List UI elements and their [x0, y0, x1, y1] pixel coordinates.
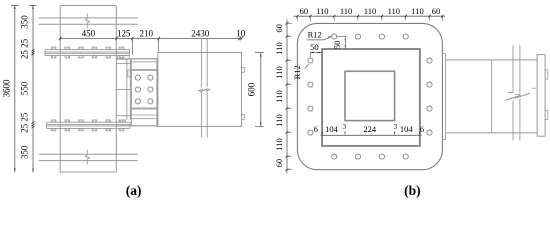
extension line 132: [131, 40, 133, 56]
svg-text:50: 50: [332, 41, 342, 50]
dimension 600 line: [260, 53, 262, 127]
svg-text:210: 210: [139, 28, 153, 38]
bracket verticals: [126, 59, 128, 120]
end plate pair outline: [131, 59, 157, 126]
bottom splice bolts: [51, 120, 56, 122]
svg-text:110: 110: [274, 114, 284, 126]
extension line 158: [158, 40, 160, 52]
weld clip: [128, 70, 130, 77]
svg-text:3: 3: [394, 123, 398, 131]
loading rod lines: [200, 39, 202, 87]
dimension column segment ticks: [32, 49, 35, 51]
bottom splice plate: [46, 121, 130, 123]
shaft center dash: [532, 87, 537, 89]
bottom dimension line (b): [321, 134, 422, 136]
svg-text:25 25: 25 25: [20, 38, 30, 59]
svg-text:550: 550: [20, 81, 30, 95]
column (a) box column outline: [59, 6, 61, 173]
svg-text:R12: R12: [308, 29, 322, 39]
svg-text:60: 60: [432, 6, 441, 16]
svg-text:110: 110: [274, 42, 284, 54]
crossing rod lines (b): [512, 45, 514, 92]
svg-text:3: 3: [342, 123, 346, 131]
svg-text:110: 110: [388, 6, 400, 16]
top dimension line (b): [294, 15, 446, 17]
svg-text:60: 60: [274, 159, 284, 168]
end plate bolt circles: [135, 75, 140, 80]
end plate flange lines: [116, 58, 157, 60]
svg-text:350: 350: [20, 15, 30, 29]
bracket horizontals: [116, 62, 131, 64]
svg-text:104: 104: [400, 124, 414, 134]
svg-text:(b): (b): [404, 183, 421, 198]
svg-text:25 25: 25 25: [20, 112, 30, 133]
svg-text:60: 60: [300, 6, 309, 16]
beam (a) outline: [158, 53, 242, 127]
svg-text:3600: 3600: [2, 79, 12, 98]
svg-text:(a): (a): [126, 183, 142, 198]
svg-text:R12: R12: [292, 65, 302, 79]
svg-text:110: 110: [274, 90, 284, 102]
shaft segment line: [491, 60, 493, 133]
svg-text:110: 110: [411, 6, 423, 16]
svg-text:6: 6: [314, 125, 318, 134]
svg-text:450: 450: [82, 28, 96, 38]
box column section 230: [345, 71, 395, 120]
bracket bottom interface box: [120, 120, 126, 122]
upper break symbol: [85, 14, 89, 29]
upper support line pair: [39, 17, 138, 19]
svg-text:224: 224: [363, 124, 377, 134]
beam outline square 450: [322, 49, 420, 146]
bolt holes (b): [332, 34, 337, 39]
svg-text:60: 60: [274, 24, 284, 33]
top splice plate: [45, 48, 129, 50]
top splice bolts: [51, 47, 56, 49]
svg-text:350: 350: [20, 145, 30, 159]
svg-text:110: 110: [274, 138, 284, 150]
svg-text:125: 125: [117, 28, 131, 38]
dimension column segments line: [32, 5, 34, 172]
shaft (b): [446, 59, 537, 61]
left dimension line (b): [286, 20, 288, 174]
svg-text:50: 50: [310, 42, 319, 52]
svg-text:110: 110: [364, 6, 376, 16]
svg-text:110: 110: [274, 66, 284, 78]
lower break symbol: [85, 150, 89, 165]
svg-text:2430: 2430: [191, 28, 210, 38]
svg-text:600: 600: [246, 82, 256, 96]
beam end tabs: [242, 67, 245, 72]
svg-text:110: 110: [316, 6, 328, 16]
loading rod break marks: [198, 89, 203, 91]
crossing rod break marks (b): [506, 95, 521, 100]
dimension 3600 line: [14, 5, 16, 172]
end cap (b): [537, 55, 545, 137]
svg-text:110: 110: [340, 6, 352, 16]
end plate (b) rounded square: [297, 23, 442, 169]
top dimension ticks (a): [59, 37, 61, 40]
svg-text:10: 10: [236, 28, 246, 38]
svg-text:6: 6: [420, 125, 424, 134]
svg-text:104: 104: [325, 124, 339, 134]
lower support line pair: [39, 153, 138, 155]
bracket top interface box: [117, 56, 129, 60]
top dimension line (a): [60, 38, 241, 40]
stub plate (b): [445, 54, 447, 140]
end cap tabs: [545, 70, 548, 79]
